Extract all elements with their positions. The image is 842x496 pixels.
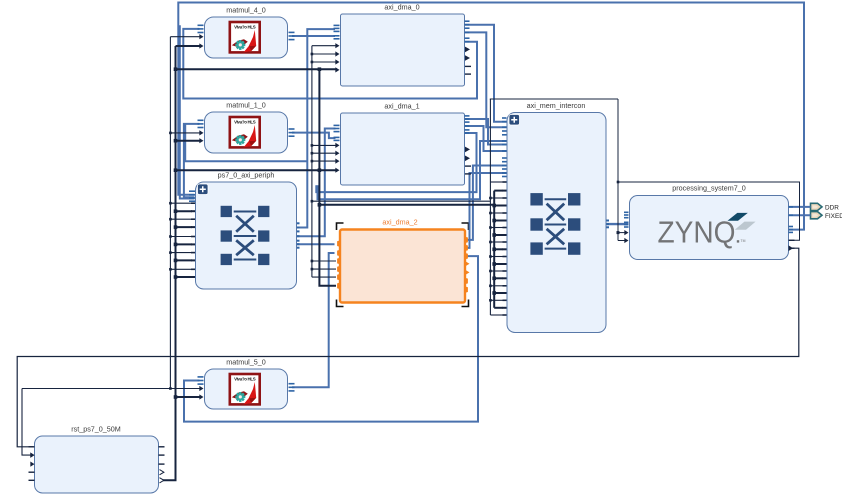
svg-text:processing_system7_0: processing_system7_0 [672, 184, 746, 193]
wire matmul_1_0 S_AXI corner riser x=183.9 [184, 124, 200, 197]
pins axi_dma_2 right orange bumps [465, 237, 468, 244]
wire ZYNQ FIXED_IO to port [789, 214, 811, 216]
clock branches to axi_dma_0 [312, 45, 336, 47]
wire ZYNQ DDR to port [789, 206, 811, 208]
wire axi_dma_2 M_AXI_MM2S to intercon [466, 166, 507, 240]
svg-text:ps7_0_axi_periph: ps7_0_axi_periph [218, 171, 275, 180]
reset branch to axi_dma_1 axi_resetn [174, 168, 178, 172]
block matmul_4_0 [205, 6, 288, 59]
svg-text:Viva?o HLS: Viva?o HLS [234, 377, 256, 382]
reset branch to matmul_1_0 ap_rst_n [174, 139, 178, 143]
pins axi_dma_0 left dashes [334, 25, 340, 27]
svg-text:Viva?o HLS: Viva?o HLS [234, 120, 256, 125]
pins ps7_0_axi_periph S00_AXI dashes [189, 190, 195, 192]
block matmul_1_0 [205, 101, 288, 154]
ZYNQ pin S_AXI_HP0_ACLK [618, 240, 626, 242]
reset branch to matmul_5_0 ap_rst_n [174, 395, 178, 399]
svg-text:rst_ps7_0_50M: rst_ps7_0_50M [71, 425, 121, 434]
pins axi_dma_1 right outputs [465, 147, 470, 153]
wire matmul_5_0 S_AXI from axi_dma_2 region loop [184, 256, 478, 422]
selection corner brackets of axi_dma_2 [337, 223, 469, 307]
wire axi_dma_0 M_AXIS_MM2S loop to matmul_4_0 S_AXIS [183, 29, 477, 99]
clock branches to axi_dma_2 [311, 260, 314, 263]
pins ZYNQ right interface dashes [789, 206, 794, 208]
svg-text:Viva?o HLS: Viva?o HLS [234, 25, 256, 30]
clock trunk 2 vertical x=311.9 for dma clocks [311, 46, 313, 277]
reset branch to matmul_4_0 ap_rst_n [176, 45, 202, 47]
pins matmul_1_0 right M_AXIS dashes [289, 128, 295, 130]
block axi_dma_1 [341, 102, 465, 186]
wire axi_dma_2 M_AXI_S2MM to intercon [466, 173, 507, 248]
pins axi_dma_2 left orange bumps [337, 240, 340, 247]
svg-text:axi_dma_0: axi_dma_0 [384, 3, 419, 12]
wire parallel left riser x=179.8 [180, 25, 195, 198]
wire y=161.2 horizontal from x=185.2 to x=306.8 [185, 124, 307, 161]
block axi_mem_intercon [507, 101, 606, 333]
external port FIXED_IO [811, 212, 842, 220]
wire riser at y=199.3 across to intercon [318, 141, 507, 199]
intercon clk/rst pins [490, 181, 503, 183]
wire axi_dma_0 M_AXI_MM2S to intercon [465, 25, 507, 122]
clock horizontal to matmul_5_0 ap_clk and rst slowest_sync_clk [22, 388, 201, 390]
pins rst_ps7_0_50M right [159, 446, 165, 448]
svg-text:DDR: DDR [825, 205, 839, 212]
clock trunk vertical x=170.4 [169, 37, 171, 389]
block axi_dma_0 [341, 3, 465, 87]
svg-text:FIXED_IO: FIXED_IO [825, 213, 842, 220]
pins axi_dma_1 right dashes [465, 115, 470, 117]
wire FCLK_RESET0_N: ZYNQ to rst ext_reset_in across bottom [17, 248, 799, 447]
svg-text:matmul_5_0: matmul_5_0 [226, 358, 266, 367]
clock branch to matmul_4_0 ap_clk [170, 36, 201, 38]
wire axi_dma_1 M_AXI_MM2S to intercon [465, 119, 507, 145]
svg-text:ZYNQ: ZYNQ [658, 215, 736, 250]
block axi_dma_2 (selected) [340, 218, 465, 303]
pins axi_mem_intercon right dots [606, 220, 609, 222]
wire matmul_5_0 M_AXIS to axi_dma_2 S_AXIS_S2MM [292, 253, 335, 387]
junction on clock at x618 y182 [617, 181, 620, 184]
pins axi_mem_intercon left interface dashes [502, 117, 507, 119]
ZYNQ pin M_AXI_GP0_ACLK [618, 232, 626, 234]
svg-text:matmul_4_0: matmul_4_0 [226, 6, 266, 15]
wire periph M00_AXI to axi_dma_0 S_AXI_LITE [297, 29, 336, 227]
block processing_system7_0 (ZYNQ) [630, 184, 789, 260]
svg-text:matmul_1_0: matmul_1_0 [226, 101, 266, 110]
block matmul_5_0 [205, 358, 288, 410]
pins matmul_5_0 left S_AXI dashes [198, 376, 204, 378]
pins matmul_4_0 right M_AXIS dashes [289, 32, 295, 34]
wire FCLK_CLK0 net upper: ladder top to ZYNQ [490, 98, 618, 100]
junction clock x618 y232.6 [617, 231, 620, 234]
svg-text:axi_dma_2: axi_dma_2 [382, 218, 417, 227]
reset long horizontal y=69.2 to axi_dma_0 axi_resetn [174, 67, 178, 71]
pins ZYNQ left interface dashes [624, 212, 629, 214]
pins ps7_0_axi_periph right M dots [297, 222, 300, 224]
wire intercon M00_AXI to ZYNQ S_AXI_HP0 [607, 223, 629, 225]
pins axi_dma_1 left dashes [334, 125, 340, 127]
svg-text:TM: TM [741, 239, 746, 243]
svg-text:axi_dma_1: axi_dma_1 [384, 102, 419, 111]
pins matmul_4_0 left S_AXI dashes [198, 25, 204, 27]
external port DDR [811, 203, 840, 211]
wire periph M01_AXI to axi_dma_1 S_AXI_LITE [297, 129, 336, 237]
wire axi_dma_1 M_AXIS_MM2S loop along y=192.1 [316, 133, 476, 192]
wire matmul_1_0 M_AXIS to axi_dma_1 S_AXIS_S2MM [292, 133, 336, 139]
reset trunk vertical x=175.5 down to rst peripheral_aresetn [160, 46, 176, 480]
wire matmul_4_0 M_AXIS to axi_dma_0 S_AXIS_S2MM [292, 35, 335, 37]
pins ZYNQ right clock/reset ticks [789, 239, 795, 241]
pins rst_ps7_0_50M left [29, 446, 35, 448]
reset connector to intercon ladder [318, 203, 322, 207]
pins axi_dma_0 right dashes [465, 20, 470, 22]
clock branch to matmul_1_0 ap_clk [169, 132, 172, 135]
pins matmul_1_0 left S_AXI dashes [198, 120, 204, 122]
intercon reset ladder x=494.2 [493, 191, 495, 308]
wire periph M02_AXI to axi_dma_2 S_AXI_LITE [297, 243, 335, 245]
clock branches to axi_dma_1 [311, 144, 314, 147]
pins axi_dma_0 right outputs [465, 47, 470, 53]
intercon clock ladder x=490.4 [489, 99, 491, 315]
wire M_AXI_GP0: ZYNQ right to top border to periph S00_AXI [178, 3, 804, 230]
pins matmul_5_0 right M_AXIS dashes [289, 383, 295, 385]
svg-text:axi_mem_intercon: axi_mem_intercon [527, 101, 586, 110]
wire axi_dma_0 M_AXI_S2MM to intercon [465, 32, 507, 127]
block rst_ps7_0_50M [35, 425, 159, 494]
pins axi_dma_2 right orange arrows [465, 261, 470, 267]
periph clock/reset pin branches [169, 202, 172, 205]
clock connector to intercon ladder [311, 200, 314, 203]
wire axi_dma_1 M_AXI_S2MM to intercon [465, 126, 507, 151]
block ps7_0_axi_periph [196, 171, 297, 290]
reset trunk 2 vertical x=319.4 [319, 69, 336, 286]
